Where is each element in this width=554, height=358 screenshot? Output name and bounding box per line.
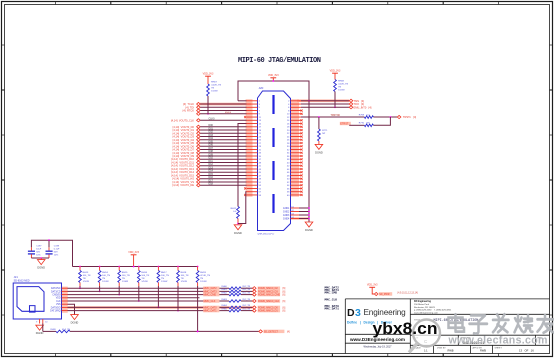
net names MMC list bbox=[325, 287, 340, 311]
svg-text:RH15: RH15 bbox=[122, 272, 128, 274]
svg-text:TN: TN bbox=[181, 278, 184, 280]
svg-text:1/10W: 1/10W bbox=[83, 281, 90, 283]
svg-text:TRSTN0: TRSTN0 bbox=[331, 114, 341, 117]
svg-text:100_TN: 100_TN bbox=[83, 275, 91, 277]
wire VOUT0_D3 bbox=[200, 134, 246, 137]
wire RH13 to row bbox=[79, 286, 81, 289]
svg-text:RH13: RH13 bbox=[83, 272, 89, 274]
svg-text:DAT1/IRQ: DAT1/IRQ bbox=[50, 310, 61, 313]
off-page connector VOUT0_D15 bbox=[171, 173, 200, 177]
off-page connector ROM0_MMC0_D3 bbox=[253, 290, 286, 294]
svg-text:RH60: RH60 bbox=[222, 286, 228, 288]
svg-text:ETRST: ETRST bbox=[340, 123, 349, 126]
connector J20 left pin numbers bbox=[259, 101, 262, 197]
svg-text:RH65: RH65 bbox=[222, 308, 228, 310]
svg-text:GND4: GND4 bbox=[283, 218, 290, 220]
svg-text:MMC_CLK: MMC_CLK bbox=[204, 300, 216, 303]
svg-text:RH62: RH62 bbox=[222, 292, 228, 294]
svg-text:D: D bbox=[347, 307, 355, 319]
wire VOUT0_D4 bbox=[200, 137, 246, 140]
off-page connector VOUT0_D9 bbox=[173, 154, 201, 158]
svg-text:45.3_TN: 45.3_TN bbox=[62, 329, 70, 331]
wire EMU0 bbox=[200, 112, 246, 114]
svg-text:SHEET: SHEET bbox=[495, 348, 503, 350]
off-page connector VOUT0_CLK bbox=[171, 118, 200, 122]
off-page connector ROM0_MMC0_D2 bbox=[253, 287, 286, 291]
wire RH65 out bbox=[241, 310, 253, 312]
wire VDD to rail bbox=[133, 255, 135, 267]
wire VOUT0_D0 bbox=[200, 124, 246, 127]
svg-text:DWN BY: DWN BY bbox=[437, 348, 446, 350]
resistor RH61 bbox=[222, 289, 251, 293]
wire MMC_DAT0 bbox=[68, 306, 230, 308]
resistor RH07 bbox=[207, 82, 222, 96]
svg-text:MMC_DAT1: MMC_DAT1 bbox=[204, 310, 218, 313]
connector J20 polarity dashed line bbox=[272, 95, 274, 224]
wire VOUT0_DE bbox=[200, 183, 246, 186]
svg-text:RWB: RWB bbox=[448, 349, 454, 353]
wire VOUT0_D6 bbox=[200, 144, 246, 147]
svg-text:MMC_CMD: MMC_CMD bbox=[325, 292, 338, 295]
svg-text:MMC_CMD: MMC_CMD bbox=[204, 294, 217, 297]
wire RH63 out bbox=[241, 300, 253, 302]
svg-text:MIPI-60 JTAG/EMULATION: MIPI-60 JTAG/EMULATION bbox=[238, 57, 321, 65]
wire RH08 to EMU_INT0 row bbox=[334, 92, 336, 108]
net label MMC_DAT3 bbox=[203, 290, 219, 294]
resistor R771 bbox=[318, 129, 329, 141]
wire VOUT0_VS bbox=[200, 179, 246, 182]
junction RH08 row bbox=[334, 106, 336, 108]
svg-text:[6]: [6] bbox=[283, 310, 286, 313]
svg-text:DGND: DGND bbox=[234, 231, 242, 235]
svg-text:[4,9,10,11,12,13,14]: [4,9,10,11,12,13,14] bbox=[398, 292, 419, 294]
off-page connector VOUT0_D2 bbox=[173, 131, 201, 135]
svg-text:CLK: CLK bbox=[56, 301, 61, 303]
wire RH60 out bbox=[241, 287, 253, 289]
ground rail right of connector bbox=[308, 81, 310, 222]
svg-text:1/16W: 1/16W bbox=[338, 89, 345, 91]
off-page connector VOUT0_D3 bbox=[173, 135, 201, 139]
junction VDD rail bbox=[133, 266, 135, 268]
wire MMC_DAT1 bbox=[68, 310, 230, 312]
svg-text:C197: C197 bbox=[36, 246, 42, 248]
svg-text:VDD_3V3: VDD_3V3 bbox=[367, 284, 378, 287]
svg-text:TRSTn [4]: TRSTn [4] bbox=[403, 115, 417, 119]
svg-text:J20: J20 bbox=[259, 86, 264, 90]
svg-text:DGND: DGND bbox=[305, 228, 313, 232]
net label MMC_DAT1 bbox=[203, 309, 219, 313]
off-page connector TCLK bbox=[183, 102, 200, 106]
svg-text:10%: 10% bbox=[54, 255, 58, 257]
wire RH07 to EMU row bbox=[207, 96, 209, 114]
wire TDI bbox=[200, 106, 246, 108]
wire R771 to ground bbox=[318, 141, 320, 144]
resistor RH08 bbox=[334, 80, 349, 92]
junction TRSTn bbox=[390, 116, 392, 118]
wire VOUT0_D8 bbox=[200, 150, 246, 153]
junction cap ground bbox=[40, 257, 42, 259]
junction VDD loop bbox=[272, 80, 274, 82]
wire ground link to pin57 bbox=[238, 192, 247, 224]
title block title field bbox=[414, 318, 478, 323]
svg-text:4.02K_TN: 4.02K_TN bbox=[211, 85, 221, 87]
off-page connector VOUT0_D0 bbox=[173, 125, 201, 129]
svg-text:R770: R770 bbox=[359, 123, 365, 125]
svg-text:RH18: RH18 bbox=[181, 272, 187, 274]
wire VOUT0_D9 bbox=[200, 153, 246, 156]
wire RH61 out bbox=[241, 290, 253, 292]
svg-text:150 Metro Park: 150 Metro Park bbox=[414, 303, 430, 306]
off-page connector VOUT0_DE bbox=[172, 183, 200, 187]
off-page connector SD_PWR bbox=[374, 292, 392, 296]
net label MMC_CMD bbox=[203, 293, 219, 297]
connector J20 ground pin names bbox=[283, 207, 295, 221]
off-page connector VOUT0_D7 bbox=[173, 148, 201, 152]
svg-text:DGND: DGND bbox=[36, 331, 44, 335]
wire RTCK bbox=[200, 110, 246, 112]
wire VOUT0_D13 bbox=[200, 166, 246, 169]
resistor RH16 bbox=[137, 266, 149, 286]
svg-text:RH20: RH20 bbox=[51, 329, 57, 331]
wire VOUT0_D10 bbox=[200, 157, 246, 160]
off-page connector VOUT0_HS bbox=[172, 177, 200, 181]
wire VDD loop over connector bbox=[238, 81, 309, 101]
svg-text:TN: TN bbox=[141, 278, 144, 280]
connector J20 left pin stubs bbox=[247, 101, 258, 195]
svg-text:TN: TN bbox=[338, 86, 341, 88]
highlight band right pin column bbox=[291, 99, 299, 197]
resistor R770 bbox=[359, 123, 374, 127]
title block size and dwg no bbox=[414, 338, 543, 345]
off-page connector ROM0_MMC0_D0 bbox=[253, 306, 286, 310]
wire RH62 out bbox=[241, 294, 253, 296]
junction RH19 detect bbox=[197, 331, 199, 333]
off-page connector ROM0_MMC0_CMD bbox=[253, 293, 286, 297]
resistor RH60 bbox=[222, 286, 251, 290]
svg-text:1/10W: 1/10W bbox=[161, 281, 168, 283]
resistor RH64 bbox=[222, 305, 251, 309]
wire TRSTN0 bbox=[301, 114, 364, 117]
svg-text:1/10W: 1/10W bbox=[200, 281, 207, 283]
svg-text:C198: C198 bbox=[54, 246, 60, 248]
svg-text:GND1: GND1 bbox=[283, 208, 290, 210]
off-page connector VOUT0_D1 bbox=[173, 128, 201, 132]
svg-text:TN: TN bbox=[161, 278, 164, 280]
svg-text:0.1uF: 0.1uF bbox=[54, 249, 60, 251]
off-page connector ROM0_MMC0_CLK bbox=[253, 299, 286, 303]
svg-text:SD_PWR: SD_PWR bbox=[379, 293, 390, 296]
wire R769 to TRSTn bbox=[373, 116, 397, 118]
resistor RH13 bbox=[79, 266, 91, 286]
wire VDD middle stub bbox=[272, 78, 274, 81]
off-page connector VOUT0_D6 bbox=[173, 144, 201, 148]
capacitor C198 bbox=[46, 246, 61, 258]
wire TDO bbox=[301, 103, 349, 105]
ground DGND J21 pin9 bbox=[36, 325, 44, 330]
no-connect marks right pins bbox=[301, 109, 303, 196]
svg-text:VDD_3V3: VDD_3V3 bbox=[128, 251, 139, 254]
svg-text:[4,14] VOUT0_CLK: [4,14] VOUT0_CLK bbox=[171, 118, 194, 122]
svg-text:DGND: DGND bbox=[37, 266, 45, 270]
svg-text:TN: TN bbox=[200, 278, 203, 280]
off-page connector VOUT0_D8 bbox=[173, 151, 201, 155]
wire MMC_CLK bbox=[68, 300, 230, 302]
resistor RH19 bbox=[196, 266, 210, 286]
svg-text:RH17: RH17 bbox=[161, 272, 167, 274]
wire MMC_DAT2 bbox=[68, 287, 230, 289]
resistor RH14 bbox=[98, 266, 110, 286]
resistor R769 bbox=[359, 114, 374, 118]
svg-text:D3 Engineering: D3 Engineering bbox=[414, 301, 431, 303]
wire VOUT0_D1 bbox=[200, 127, 246, 130]
wire VOUT0_D11 bbox=[200, 160, 246, 163]
ground DGND J21 VSS bbox=[71, 315, 79, 320]
wire VDD to RH07 bbox=[207, 76, 209, 84]
svg-text:47.4K_TN: 47.4K_TN bbox=[200, 275, 210, 277]
svg-text:100_TN: 100_TN bbox=[181, 275, 189, 277]
resistor RH15 bbox=[118, 266, 130, 286]
svg-text:100_TN: 100_TN bbox=[161, 275, 169, 277]
title block address bbox=[414, 301, 452, 314]
resistor RH18 bbox=[177, 266, 189, 286]
wire pin1 row bbox=[238, 100, 247, 102]
wire VOUT0_D7 bbox=[200, 147, 246, 150]
svg-text:R769: R769 bbox=[359, 114, 365, 116]
svg-text:ROM0_MMC0_CLK: ROM0_MMC0_CLK bbox=[258, 300, 280, 303]
wire MMC_DAT3 bbox=[68, 290, 230, 292]
svg-text:10uF: 10uF bbox=[36, 249, 42, 251]
svg-text:RH08: RH08 bbox=[338, 80, 344, 82]
svg-text:Rochester, NY 14623: Rochester, NY 14623 bbox=[414, 306, 436, 309]
wire RH64 out bbox=[241, 306, 253, 308]
svg-text:VSS: VSS bbox=[56, 304, 61, 306]
wire VOUT0_D5 bbox=[200, 140, 246, 143]
highlight band GND4 wire bbox=[291, 217, 309, 220]
svg-text:SD-8162-NED: SD-8162-NED bbox=[14, 280, 30, 283]
svg-text:Engineering: Engineering bbox=[364, 308, 407, 317]
svg-text:DAT0/DO: DAT0/DO bbox=[51, 306, 61, 309]
svg-text:D18: D18 bbox=[209, 183, 214, 186]
svg-text:SD_DETECT: SD_DETECT bbox=[264, 330, 279, 333]
highlight band TMS wire bbox=[297, 100, 349, 103]
svg-text:p. (585) 429-1550 f. (585): p. (585) 429-1550 f. (585) 429-1851 bbox=[414, 310, 452, 312]
svg-text:CLK0: CLK0 bbox=[209, 118, 216, 121]
svg-text:TN: TN bbox=[83, 278, 86, 280]
wire TMS bbox=[301, 100, 349, 102]
svg-text:NP: NP bbox=[367, 123, 371, 125]
connector J20 ground pin stubs bbox=[291, 208, 300, 219]
wire card detect down bbox=[42, 324, 44, 332]
svg-text:QSH-030-01-F-D: QSH-030-01-F-D bbox=[258, 234, 275, 236]
svg-text:R771: R771 bbox=[322, 130, 328, 132]
svg-text:DGND: DGND bbox=[71, 321, 79, 325]
svg-text:DAT3/CD: DAT3/CD bbox=[51, 290, 61, 293]
svg-text:MMC_CLK: MMC_CLK bbox=[325, 299, 338, 302]
svg-text:VDD_3V3: VDD_3V3 bbox=[203, 73, 214, 76]
svg-text:VDD_3V3: VDD_3V3 bbox=[268, 74, 279, 77]
junction RH07 row bbox=[207, 113, 209, 115]
off-page connector VOUT0_D12 bbox=[171, 164, 200, 168]
svg-text:DGND: DGND bbox=[315, 150, 323, 154]
wire VDD to RH08 bbox=[334, 73, 336, 79]
svg-text:www.elecfans.com: www.elecfans.com bbox=[448, 334, 548, 346]
capacitor C197 bbox=[28, 246, 42, 258]
svg-text:VDD: VDD bbox=[56, 298, 61, 300]
wire VOUT0_D2 bbox=[200, 131, 246, 134]
off-page connector TMS bbox=[349, 99, 364, 103]
wire VOUT0_HS bbox=[200, 176, 246, 179]
wire cap ground stub bbox=[40, 258, 42, 260]
ground DGND bottom right bbox=[305, 222, 313, 227]
svg-text:EMU_INT0 [4]: EMU_INT0 [4] bbox=[354, 105, 372, 109]
wire VDD row bbox=[68, 297, 200, 299]
resistor RH20 bbox=[43, 329, 71, 333]
svg-text:[4,14] VOUT0_DE: [4,14] VOUT0_DE bbox=[172, 183, 194, 187]
wire capacitor ground link bbox=[31, 257, 49, 259]
off-page connector TRSTn bbox=[397, 115, 416, 119]
wire ETRST bbox=[349, 124, 364, 126]
watermark magnifier bbox=[409, 320, 440, 353]
off-page connector VOUT0_D14 bbox=[171, 170, 200, 174]
svg-text:1/10W: 1/10W bbox=[141, 281, 148, 283]
svg-text:NP: NP bbox=[322, 133, 326, 135]
wires ground pins to rail bbox=[299, 207, 310, 219]
wire RH14 to row bbox=[99, 286, 101, 292]
wire VOUT0_D12 bbox=[200, 163, 246, 166]
svg-text:www.D3Engineering.com: www.D3Engineering.com bbox=[349, 337, 405, 342]
svg-text:50V: 50V bbox=[54, 252, 58, 254]
svg-text:DAT2/NC: DAT2/NC bbox=[51, 287, 61, 290]
svg-text:10%: 10% bbox=[36, 255, 40, 257]
svg-text:3: 3 bbox=[355, 307, 361, 319]
svg-text:RH12: RH12 bbox=[231, 208, 237, 210]
title block bottom row bbox=[414, 347, 535, 353]
svg-text:RH14: RH14 bbox=[102, 272, 108, 274]
wire TCLK bbox=[200, 103, 246, 105]
off-page connector VOUT0_D11 bbox=[171, 160, 200, 164]
wire pin15 ground link bbox=[238, 124, 247, 207]
wire RH18 to row bbox=[177, 286, 179, 312]
svg-text:1:1: 1:1 bbox=[424, 349, 428, 353]
svg-text:ybx8.cn: ybx8.cn bbox=[373, 320, 438, 338]
net label ETRST bbox=[340, 122, 351, 126]
resistor RH65 bbox=[222, 308, 251, 312]
wire RH15 to row bbox=[118, 286, 120, 296]
wire MMC_CMD bbox=[68, 294, 230, 296]
svg-text:RH16: RH16 bbox=[141, 272, 147, 274]
net label MMC_CLK bbox=[203, 299, 219, 303]
wire SD_PWR bbox=[372, 287, 374, 294]
svg-text:MMC_DAT1: MMC_DAT1 bbox=[325, 308, 340, 311]
svg-text:ROM0_MMC0_CMD: ROM0_MMC0_CMD bbox=[258, 294, 280, 297]
svg-text:VDD_3V3: VDD_3V3 bbox=[330, 70, 341, 73]
off-page connector VOUT0_D4 bbox=[173, 138, 201, 142]
svg-text:RH19: RH19 bbox=[200, 272, 206, 274]
wire VOUT0_CLK bbox=[200, 118, 246, 121]
wire VOUT0_D14 bbox=[200, 170, 246, 173]
svg-text:100_TN: 100_TN bbox=[141, 275, 149, 277]
wire RH16 to row bbox=[138, 286, 140, 302]
off-page connector RTCK bbox=[183, 109, 201, 113]
connector J21 pin names bbox=[50, 287, 61, 312]
off-page connector VOUT0_D5 bbox=[173, 141, 201, 145]
svg-text:[6]: [6] bbox=[283, 300, 286, 303]
svg-text:RWB: RWB bbox=[480, 349, 486, 353]
svg-text:50V: 50V bbox=[36, 252, 40, 254]
svg-text:100_TN: 100_TN bbox=[102, 275, 110, 277]
svg-text:J21: J21 bbox=[14, 275, 19, 279]
svg-text:EMU0: EMU0 bbox=[225, 112, 232, 114]
off-page connector EMU0 bbox=[197, 112, 201, 115]
off-page connector ROM0_MMC0_D1 bbox=[253, 309, 286, 313]
resistor RH17 bbox=[157, 266, 169, 286]
connector J21 body bbox=[13, 275, 61, 319]
svg-text:TN: TN bbox=[102, 278, 105, 280]
net label MMC_DAT2 bbox=[203, 287, 219, 291]
ground DGND capacitors bbox=[37, 260, 45, 265]
connector J20 body bbox=[258, 86, 291, 235]
ground DGND below R771 bbox=[315, 144, 323, 149]
svg-text:CMD/DI: CMD/DI bbox=[52, 295, 61, 297]
svg-text:ROM0_MMC0_D1: ROM0_MMC0_D1 bbox=[258, 310, 278, 313]
svg-text:RH63: RH63 bbox=[222, 299, 228, 301]
svg-text:TN: TN bbox=[211, 88, 214, 90]
svg-text:[4]: [4] bbox=[287, 330, 290, 333]
wire pull-up rail bbox=[73, 266, 198, 268]
wire ATT1 tap down bbox=[318, 117, 320, 129]
net label MMC_DAT0 bbox=[203, 306, 219, 310]
svg-text:RH61: RH61 bbox=[222, 289, 228, 291]
watermark chinese characters bbox=[449, 314, 554, 333]
title block bbox=[345, 299, 549, 354]
junction ATT1 tap bbox=[318, 116, 320, 118]
wire SD_DETECT bbox=[70, 330, 259, 332]
svg-text:1/10W: 1/10W bbox=[181, 281, 188, 283]
svg-text:www.d3engineering.com: www.d3engineering.com bbox=[414, 311, 438, 314]
svg-text:RH64: RH64 bbox=[222, 305, 228, 307]
highlight band J21 pin column bbox=[62, 287, 68, 313]
resistor RH63 bbox=[222, 299, 251, 303]
wire C198 top bbox=[48, 240, 50, 247]
off-page connector SD_DETECT bbox=[259, 330, 290, 334]
svg-text:[6]: [6] bbox=[283, 294, 286, 297]
resistor RH12 bbox=[231, 207, 240, 219]
svg-text:1/16W: 1/16W bbox=[211, 91, 218, 93]
svg-text:1/10W: 1/10W bbox=[102, 281, 109, 283]
ground DGND left of connector bbox=[234, 225, 242, 230]
logo D3 Engineering bbox=[347, 307, 406, 319]
connector J20 right pin numbers bbox=[287, 101, 290, 197]
off-page connector VOUT0_D10 bbox=[171, 157, 200, 161]
svg-text:TN: TN bbox=[122, 278, 125, 280]
off-page connector TDO bbox=[349, 102, 364, 106]
junction RH12 ground bbox=[237, 223, 239, 225]
wire RH19 to row bbox=[197, 286, 199, 332]
junction C198 top bbox=[48, 239, 50, 241]
highlight band TCLK wire bbox=[200, 103, 251, 106]
svg-text:4.02K_TN: 4.02K_TN bbox=[338, 83, 348, 85]
svg-text:1/10W: 1/10W bbox=[122, 281, 129, 283]
off-page connector VOUT0_VS bbox=[173, 180, 201, 184]
off-page connector EMU_INT0 bbox=[349, 105, 371, 109]
off-page connector VOUT0_D13 bbox=[171, 167, 200, 171]
connector J21 card outline bbox=[17, 287, 44, 313]
no-connect marks left pins bbox=[244, 116, 246, 196]
svg-text:[4] RTCK: [4] RTCK bbox=[183, 109, 195, 113]
highlight band MMC_DAT0 wire bbox=[68, 306, 253, 309]
svg-text:Wednesday, July 19, 2017: Wednesday, July 19, 2017 bbox=[364, 345, 393, 348]
junction TMS rail bbox=[308, 100, 310, 102]
